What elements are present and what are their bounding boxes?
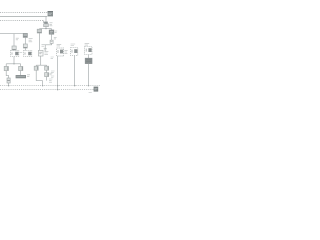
label U1: [50, 23, 53, 26]
label L1: [27, 75, 30, 77]
label W1: [42, 45, 45, 47]
wire from SW1 to fuse F3: [6, 71, 8, 78]
fuse F1: [12, 46, 16, 50]
wire gather drop to ground bus: [42, 81, 44, 86]
ground bus dashed line 2: [0, 89, 95, 91]
wire bus solid line: [0, 16, 47, 18]
label C3: [55, 31, 58, 33]
wire SW4 to resistor R1: [46, 70, 48, 72]
component U1 (diagnostic connector): [44, 22, 48, 24]
label right of M2: [64, 50, 67, 53]
wire down from C2: [39, 33, 41, 50]
junction dot: [8, 85, 10, 87]
label K1: [20, 52, 23, 54]
label near gather: [49, 79, 52, 82]
wire F3 to ground bus: [8, 83, 10, 86]
wire SW2 to lamp: [20, 71, 22, 75]
connector C3 (right branch): [51, 29, 53, 30]
connector C2 (left branch): [39, 28, 41, 31]
wire M2 to ground buses: [57, 56, 59, 90]
wire center drop: [39, 49, 41, 51]
motor M4 (dashed enclosure): [85, 47, 92, 55]
wire into relay box: [24, 48, 26, 50]
label above motor M3: [71, 44, 76, 46]
label above motor M4: [85, 44, 90, 46]
ground bus dashed line 1: [0, 85, 100, 87]
wire M4 to connector C5: [88, 55, 90, 59]
wire bus dashed line 2: [0, 20, 44, 22]
switch SW3: [35, 65, 37, 66]
junction box J1: [23, 33, 27, 37]
label left of wire: [51, 57, 54, 59]
relay K1 (dashed enclosure): [11, 50, 19, 56]
wire riser from bus to node A: [45, 17, 47, 23]
label J1: [29, 39, 33, 42]
label beside splice: [54, 37, 57, 39]
label under bus: [89, 92, 92, 94]
wire elbow to ground pigtail: [45, 43, 51, 48]
wire T-branch node: [40, 27, 52, 29]
label mid wire: [51, 71, 55, 78]
wire C5 to ground bus: [88, 64, 90, 86]
splice S1: [50, 40, 53, 43]
label wire colour: [16, 38, 19, 40]
wire down from K1: [13, 57, 15, 64]
ground G1: [44, 49, 47, 51]
wire split bar: [6, 63, 20, 65]
relay K2 (dashed enclosure): [24, 50, 32, 56]
motor M2 (dashed enclosure): [57, 48, 64, 56]
lamp L1 (dark box): [16, 75, 26, 78]
switch SW4: [46, 65, 48, 66]
wire C4 down to split: [40, 56, 42, 65]
wire down from C3: [51, 34, 53, 40]
switch SW2 (right): [20, 64, 22, 67]
wire stub from dashed line 2: [44, 21, 46, 23]
connector C5 (solid block): [85, 58, 92, 63]
wire R1 to gather bar: [46, 77, 48, 81]
fuse F2: [23, 44, 27, 48]
ground module box G2: [94, 87, 99, 92]
module label box M1: [48, 11, 53, 16]
resistor R1: [45, 73, 49, 77]
wire bus dashed line 1 (top): [0, 12, 47, 14]
label above motor M2: [57, 44, 62, 46]
label C4: [44, 51, 48, 54]
wire down from J1: [24, 38, 26, 44]
wire split bar 2: [36, 64, 46, 66]
label R1: [49, 73, 52, 75]
fuse F3: [7, 78, 10, 83]
motor M3 (dashed enclosure): [71, 48, 78, 56]
switch SW1 (left): [5, 64, 7, 67]
wire SW3 to gather bar: [36, 70, 42, 80]
connector C4: [38, 50, 43, 56]
wire drop at x14: [13, 34, 15, 46]
wire M3 to ground bus: [74, 56, 76, 86]
wire trunk left feed: [0, 33, 23, 35]
